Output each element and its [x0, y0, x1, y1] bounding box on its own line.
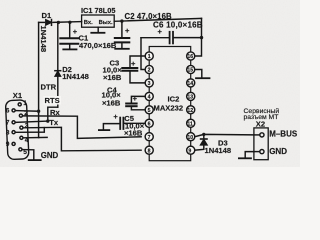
capacitor C6 plates: [169, 32, 171, 44]
svg-text:+: +: [133, 94, 138, 103]
wire C3 bottom to pin3: [130, 72, 145, 83]
ground bar X2: [239, 157, 251, 159]
pin 13: [187, 92, 195, 100]
node dot D3-MBUS: [202, 133, 205, 136]
node dot C6-VCC: [200, 36, 203, 39]
wire C5 right lead to pin6: [124, 122, 145, 124]
svg-text:GND: GND: [269, 147, 287, 156]
wire +5V rail from IC1 output to right corner: [114, 18, 201, 21]
wire DB9 pin6 to DTR vertical: [16, 110, 39, 113]
pin 5: [145, 106, 153, 114]
X1 pin 3: [20, 126, 23, 129]
X2 pin M-BUS circle: [260, 133, 264, 137]
pin 1: [145, 52, 153, 60]
svg-text:9: 9: [6, 141, 10, 148]
pin 3: [145, 79, 153, 87]
svg-text:8: 8: [148, 148, 151, 154]
wire C6 left horizontal: [141, 37, 169, 39]
pin 4: [145, 92, 153, 100]
wire DB9 pin4 row: [23, 136, 47, 138]
pin 8: [145, 146, 153, 154]
svg-text:14: 14: [187, 81, 193, 87]
svg-text:+: +: [158, 27, 163, 36]
svg-text:RTS: RTS: [45, 96, 60, 105]
wire RTS to DB9 pin7: [16, 121, 48, 122]
wire C6 right lead to VCC vertical: [174, 37, 202, 39]
node dot rail-C1: [68, 21, 71, 24]
svg-text:10: 10: [187, 135, 193, 141]
svg-text:+: +: [73, 27, 78, 36]
X1 pin 2: [19, 114, 22, 117]
connector X1 DB9 shell: [5, 100, 29, 160]
pin 12: [187, 106, 195, 114]
diode D2: [55, 71, 61, 77]
regulator IC1 78L05 box: [82, 15, 115, 27]
pin 14: [187, 79, 195, 87]
svg-text:1N4148: 1N4148: [62, 72, 89, 81]
svg-text:+: +: [131, 59, 136, 68]
pin 15: [187, 65, 195, 73]
diode D3: [201, 139, 207, 145]
pin 9: [187, 146, 195, 154]
capacitor C4 plates: [126, 103, 136, 105]
wire C5 left lead: [103, 124, 119, 130]
wire D3 cathode stub: [203, 134, 205, 138]
svg-text:7: 7: [148, 135, 151, 141]
svg-text:4: 4: [148, 95, 151, 101]
X1 pin 5: [19, 148, 22, 151]
node dot rail-C2: [120, 19, 123, 22]
pin 6: [145, 119, 153, 127]
svg-text:Вх.: Вх.: [84, 20, 93, 26]
wire D3 anode to pin9: [195, 145, 204, 150]
capacitor C2 plates: [115, 37, 130, 39]
capacitor C1 riser: [69, 22, 71, 37]
svg-text:470,0×16В: 470,0×16В: [79, 41, 117, 50]
X2 pin GND circle: [260, 150, 264, 154]
wire C4 bottom to pin5: [131, 107, 145, 110]
ground bar under C2: [115, 48, 129, 50]
svg-text:IC2: IC2: [168, 95, 180, 104]
svg-text:+: +: [125, 26, 130, 35]
wire RTS vertical (D2 branch): [57, 22, 59, 70]
wire raw supply rail D1 anode corner to 78L05 input: [39, 21, 45, 23]
wire pin15 to ground: [195, 70, 202, 78]
svg-text:X2: X2: [256, 119, 265, 128]
diode D1: [46, 20, 52, 26]
svg-text:16: 16: [187, 54, 193, 60]
wire pin4 to C4 top: [131, 96, 145, 102]
svg-text:DTR: DTR: [41, 83, 57, 92]
pin 7: [145, 133, 153, 141]
capacitor C3 plates: [122, 67, 137, 69]
X2 pin GND stub: [254, 151, 260, 153]
pin 16: [187, 52, 195, 60]
svg-text:1: 1: [23, 100, 27, 107]
connector X2 box: [254, 128, 268, 160]
wire DTR vertical from D1 down to DB9 pin4 row: [38, 22, 40, 137]
label RTS on background patch: [44, 96, 62, 105]
svg-text:6: 6: [6, 108, 10, 115]
ground bar under C5: [99, 129, 109, 131]
X1 pin 8: [12, 131, 15, 134]
svg-text:×16В: ×16В: [103, 73, 122, 82]
ground bar under C1: [63, 48, 76, 50]
svg-text:1: 1: [148, 54, 151, 60]
svg-text:MAX232: MAX232: [154, 104, 184, 113]
wire Rx net pin2 to MAX232 pin7: [23, 116, 141, 138]
wire CTS link DB9 pin8 to Tx line: [16, 128, 45, 133]
svg-text:D1: D1: [42, 11, 52, 20]
svg-text:12: 12: [187, 108, 193, 114]
capacitor C5 plates: [119, 118, 121, 129]
svg-text:6: 6: [148, 122, 151, 128]
capacitor C1 plates: [60, 37, 78, 39]
ground bar under IC1: [91, 32, 104, 34]
wire M-BUS net MAX232 pin10 to X2: [195, 134, 254, 136]
X1 pin 7: [12, 121, 15, 124]
svg-text:1N4148: 1N4148: [205, 146, 232, 155]
svg-text:7: 7: [6, 120, 10, 127]
svg-text:M–BUS: M–BUS: [269, 130, 298, 139]
svg-text:X1: X1: [13, 91, 23, 100]
svg-text:3: 3: [148, 81, 151, 87]
svg-text:9: 9: [188, 148, 191, 154]
pin 10: [187, 133, 195, 141]
capacitor C2 lower lead: [121, 43, 123, 48]
node dot DTR-pin6: [37, 110, 40, 113]
ground bar DB9 pin5: [29, 159, 41, 161]
svg-text:2: 2: [148, 68, 151, 74]
X1 pin 4: [20, 136, 23, 139]
ground bar pin15: [196, 77, 210, 79]
X1 pin 1: [18, 103, 21, 106]
node dot RTS junction: [46, 119, 49, 122]
svg-text:8: 8: [6, 129, 10, 136]
svg-text:×16В: ×16В: [102, 99, 121, 108]
wire VCC vertical down to pin16: [195, 18, 202, 56]
svg-text:+: +: [113, 112, 118, 121]
node dot rail-D2: [57, 21, 60, 24]
pin 11: [187, 119, 195, 127]
svg-text:Tx: Tx: [49, 118, 59, 127]
svg-text:5: 5: [148, 108, 151, 114]
svg-text:1N4148: 1N4148: [39, 26, 48, 53]
IC2 MAX232 body: [149, 47, 191, 161]
svg-text:IC1 78L05: IC1 78L05: [81, 6, 116, 15]
X2 pin M-BUS stub: [254, 134, 260, 136]
wire C6 left lead down to pin2: [141, 38, 145, 70]
svg-text:13: 13: [187, 95, 193, 101]
wire DB9 pin5 to ground: [22, 150, 34, 160]
svg-text:GND: GND: [41, 151, 59, 160]
IC1 ground lead: [97, 27, 99, 32]
pin 2: [145, 65, 153, 73]
svg-text:11: 11: [187, 122, 193, 128]
capacitor C2 riser: [121, 21, 123, 37]
wire pin1 to C3 top: [130, 56, 145, 67]
svg-text:Вых.: Вых.: [99, 20, 113, 26]
svg-text:15: 15: [187, 68, 193, 74]
wire Tx net pin3 to MAX232 pin8: [23, 127, 141, 151]
capacitor C1 lower lead: [69, 45, 71, 49]
X1 pin 9: [12, 142, 15, 145]
X1 pin 6: [12, 109, 15, 112]
wire RTS jog from D2 down-left: [48, 107, 58, 121]
wire X2 GND to ground: [245, 152, 254, 158]
